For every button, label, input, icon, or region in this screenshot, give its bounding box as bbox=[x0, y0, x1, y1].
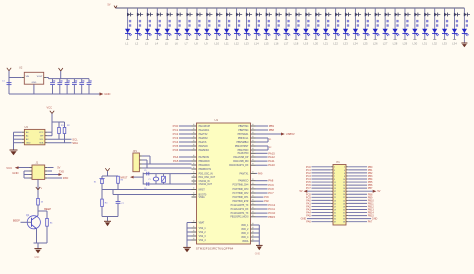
svg-text:P1: P1 bbox=[337, 160, 341, 164]
svg-text:18: 18 bbox=[343, 191, 345, 193]
svg-text:R3: R3 bbox=[121, 180, 124, 182]
svg-text:PA11/USB_DM: PA11/USB_DM bbox=[233, 160, 248, 163]
svg-text:32: 32 bbox=[343, 212, 345, 214]
svg-text:1: 1 bbox=[334, 167, 335, 169]
svg-text:Y1: Y1 bbox=[148, 179, 150, 181]
svg-text:PA5: PA5 bbox=[173, 159, 179, 163]
svg-text:PA3/RX2: PA3/RX2 bbox=[199, 137, 209, 140]
svg-text:GND: GND bbox=[32, 82, 37, 84]
svg-text:16: 16 bbox=[343, 188, 345, 190]
svg-text:31: 31 bbox=[334, 212, 336, 214]
svg-text:PC7: PC7 bbox=[306, 187, 311, 190]
svg-text:L28: L28 bbox=[393, 42, 398, 46]
svg-text:14: 14 bbox=[343, 185, 345, 187]
svg-text:PB3/JTDO: PB3/JTDO bbox=[238, 150, 249, 152]
svg-text:28: 28 bbox=[343, 206, 345, 208]
svg-text:U3: U3 bbox=[25, 125, 29, 129]
svg-text:8: 8 bbox=[344, 176, 345, 178]
svg-text:STM32F103RCT6/LQFP64: STM32F103RCT6/LQFP64 bbox=[196, 246, 234, 250]
svg-text:VSS_2: VSS_2 bbox=[199, 232, 207, 234]
svg-text:BEEP: BEEP bbox=[13, 218, 20, 222]
svg-text:PC6/TIM8_CH1: PC6/TIM8_CH1 bbox=[233, 197, 250, 199]
svg-text:U2: U2 bbox=[19, 66, 23, 70]
svg-text:GND: GND bbox=[372, 218, 378, 221]
svg-text:L19: L19 bbox=[304, 42, 309, 46]
svg-text:L32: L32 bbox=[432, 42, 437, 46]
svg-text:L9: L9 bbox=[204, 42, 208, 46]
svg-text:L21: L21 bbox=[323, 42, 328, 46]
svg-text:24: 24 bbox=[343, 200, 345, 202]
svg-text:12: 12 bbox=[343, 182, 345, 184]
svg-text:PA2/TX2: PA2/TX2 bbox=[199, 133, 209, 136]
svg-text:PC10/UART4_TX: PC10/UART4_TX bbox=[231, 212, 249, 215]
svg-text:4: 4 bbox=[344, 170, 345, 172]
svg-text:L25: L25 bbox=[363, 42, 368, 46]
svg-text:L17: L17 bbox=[284, 42, 289, 46]
svg-text:PD1_OSC_OUT: PD1_OSC_OUT bbox=[199, 177, 216, 179]
svg-text:L5: L5 bbox=[165, 42, 169, 46]
svg-text:L24: L24 bbox=[353, 42, 358, 46]
svg-text:L29: L29 bbox=[403, 42, 408, 46]
svg-text:5V: 5V bbox=[108, 4, 111, 7]
svg-text:PA9: PA9 bbox=[258, 172, 263, 175]
svg-text:PC7: PC7 bbox=[268, 191, 274, 195]
svg-text:R1: R1 bbox=[61, 125, 64, 127]
svg-text:NRST: NRST bbox=[120, 175, 127, 179]
svg-text:PC8/TIM8_CH3: PC8/TIM8_CH3 bbox=[233, 189, 250, 191]
svg-text:VSS_4: VSS_4 bbox=[199, 240, 207, 242]
svg-text:38: 38 bbox=[343, 222, 345, 224]
svg-text:L11: L11 bbox=[224, 42, 229, 46]
svg-text:PB7/SDA1: PB7/SDA1 bbox=[238, 133, 250, 136]
svg-text:L34: L34 bbox=[452, 42, 457, 46]
svg-text:PB8/TIM4: PB8/TIM4 bbox=[238, 130, 249, 132]
svg-text:L13: L13 bbox=[244, 42, 249, 46]
svg-text:GND: GND bbox=[26, 143, 31, 145]
svg-text:PB7: PB7 bbox=[368, 187, 373, 190]
svg-text:19: 19 bbox=[334, 194, 336, 196]
svg-text:C5: C5 bbox=[144, 170, 146, 172]
svg-text:NRST: NRST bbox=[199, 189, 206, 191]
svg-text:GND: GND bbox=[12, 171, 18, 175]
svg-text:PA8/MCO: PA8/MCO bbox=[238, 180, 248, 183]
svg-text:1K: 1K bbox=[41, 202, 44, 204]
svg-text:PC11/UART4_RX: PC11/UART4_RX bbox=[231, 208, 249, 211]
svg-text:VDD_2: VDD_2 bbox=[241, 229, 249, 231]
svg-text:PA4/CS: PA4/CS bbox=[199, 141, 207, 144]
svg-text:GND: GND bbox=[34, 257, 39, 259]
svg-text:OSC32_IN: OSC32_IN bbox=[199, 181, 210, 183]
svg-text:PA0-WKUP: PA0-WKUP bbox=[199, 125, 211, 128]
svg-text:L18: L18 bbox=[294, 42, 299, 46]
svg-text:PA9/TX1: PA9/TX1 bbox=[240, 172, 250, 175]
svg-text:L7: L7 bbox=[185, 42, 189, 46]
svg-text:VCC: VCC bbox=[6, 166, 12, 170]
svg-text:PB8: PB8 bbox=[269, 128, 275, 132]
svg-text:3: 3 bbox=[334, 170, 335, 172]
svg-text:SDA: SDA bbox=[72, 141, 78, 145]
svg-text:2: 2 bbox=[344, 167, 345, 169]
svg-text:PC6: PC6 bbox=[173, 148, 179, 152]
svg-text:34: 34 bbox=[343, 216, 345, 218]
svg-text:V: V bbox=[41, 188, 43, 190]
svg-text:PD0_OSC_IN: PD0_OSC_IN bbox=[199, 174, 213, 176]
svg-text:VSS_1: VSS_1 bbox=[199, 228, 207, 230]
svg-text:L10: L10 bbox=[214, 42, 219, 46]
svg-text:PB5/SMBAI: PB5/SMBAI bbox=[237, 141, 249, 144]
svg-text:23: 23 bbox=[334, 200, 336, 202]
svg-text:L23: L23 bbox=[343, 42, 348, 46]
svg-text:BEEP: BEEP bbox=[44, 207, 51, 211]
svg-text:VBAT: VBAT bbox=[199, 221, 205, 224]
svg-text:L30: L30 bbox=[412, 42, 417, 46]
svg-text:30: 30 bbox=[343, 209, 345, 211]
svg-text:PA1/ADC1: PA1/ADC1 bbox=[199, 129, 210, 132]
svg-text:5: 5 bbox=[334, 173, 335, 175]
svg-text:20: 20 bbox=[343, 194, 345, 196]
svg-text:Q1: Q1 bbox=[26, 214, 30, 217]
svg-text:SDA: SDA bbox=[39, 142, 44, 145]
svg-text:26: 26 bbox=[343, 203, 345, 205]
svg-text:PA5: PA5 bbox=[306, 215, 311, 218]
svg-text:L22: L22 bbox=[333, 42, 338, 46]
svg-text:PB9/TIM4: PB9/TIM4 bbox=[238, 126, 249, 128]
svg-text:TXD: TXD bbox=[59, 170, 64, 174]
svg-text:VDD_1: VDD_1 bbox=[241, 225, 249, 227]
svg-text:21: 21 bbox=[334, 197, 336, 199]
svg-text:USB5V: USB5V bbox=[286, 132, 295, 136]
svg-text:L12: L12 bbox=[234, 42, 239, 46]
svg-text:GND: GND bbox=[104, 92, 110, 96]
svg-text:R4: R4 bbox=[105, 203, 108, 205]
svg-text:PC6: PC6 bbox=[264, 196, 269, 199]
svg-text:PC12/UART5_TX: PC12/UART5_TX bbox=[231, 204, 249, 207]
svg-text:7: 7 bbox=[334, 176, 335, 178]
svg-text:5V: 5V bbox=[377, 190, 380, 193]
svg-text:L20: L20 bbox=[313, 42, 318, 46]
svg-text:C6: C6 bbox=[144, 188, 146, 190]
svg-text:VCC: VCC bbox=[47, 106, 53, 110]
svg-text:PB15: PB15 bbox=[268, 215, 275, 219]
svg-text:PA15/JTDI: PA15/JTDI bbox=[238, 152, 249, 155]
svg-text:L33: L33 bbox=[442, 42, 447, 46]
svg-text:L15: L15 bbox=[264, 42, 269, 46]
svg-text:OSC32_OUT: OSC32_OUT bbox=[199, 184, 213, 186]
svg-text:RXD: RXD bbox=[63, 176, 69, 180]
svg-text:PA10/USART1_RX: PA10/USART1_RX bbox=[229, 164, 249, 167]
svg-text:L1: L1 bbox=[125, 42, 129, 46]
svg-text:VSSA: VSSA bbox=[199, 196, 206, 199]
svg-text:L4: L4 bbox=[155, 42, 159, 46]
svg-text:VIN: VIN bbox=[26, 76, 30, 78]
svg-text:35: 35 bbox=[334, 219, 336, 221]
svg-text:PA7/MOSI: PA7/MOSI bbox=[199, 156, 210, 159]
svg-text:L14: L14 bbox=[254, 42, 259, 46]
svg-text:6: 6 bbox=[344, 173, 345, 175]
svg-text:PC7/TIM8_CH2: PC7/TIM8_CH2 bbox=[233, 193, 250, 195]
svg-text:R2: R2 bbox=[67, 125, 70, 127]
svg-text:VDD_3: VDD_3 bbox=[241, 233, 249, 235]
svg-text:PB0/ADC8: PB0/ADC8 bbox=[199, 160, 211, 163]
svg-text:PA12/USB_DP: PA12/USB_DP bbox=[233, 156, 248, 159]
svg-text:PA10: PA10 bbox=[268, 163, 275, 167]
svg-text:36: 36 bbox=[343, 219, 345, 221]
svg-text:L2: L2 bbox=[135, 42, 139, 46]
svg-text:PC9/TIM8_CH4: PC9/TIM8_CH4 bbox=[233, 185, 250, 187]
svg-text:25: 25 bbox=[334, 203, 336, 205]
svg-text:PB1/ADC9: PB1/ADC9 bbox=[199, 164, 211, 167]
svg-text:11: 11 bbox=[334, 182, 336, 184]
svg-text:X2: X2 bbox=[269, 147, 272, 149]
svg-text:L27: L27 bbox=[383, 42, 388, 46]
svg-text:5V: 5V bbox=[300, 190, 303, 193]
svg-text:B1: B1 bbox=[50, 222, 53, 224]
svg-text:PA6/MISO: PA6/MISO bbox=[199, 149, 210, 152]
svg-text:J1: J1 bbox=[36, 161, 39, 165]
svg-text:29: 29 bbox=[334, 209, 336, 211]
svg-text:PB15/SPI2_MOSI: PB15/SPI2_MOSI bbox=[230, 217, 248, 219]
svg-text:X1: X1 bbox=[269, 139, 272, 141]
svg-text:L8: L8 bbox=[195, 42, 199, 46]
svg-text:L16: L16 bbox=[274, 42, 279, 46]
svg-text:PA5/SCK: PA5/SCK bbox=[199, 145, 209, 148]
svg-text:PB2/BOOT1: PB2/BOOT1 bbox=[199, 169, 212, 171]
svg-text:L6: L6 bbox=[175, 42, 179, 46]
svg-text:C1: C1 bbox=[2, 81, 5, 83]
svg-text:U1: U1 bbox=[215, 118, 219, 122]
svg-text:17: 17 bbox=[334, 191, 336, 193]
svg-text:VDD_4: VDD_4 bbox=[241, 237, 249, 239]
svg-text:VDDA: VDDA bbox=[242, 240, 249, 243]
svg-text:S1: S1 bbox=[94, 181, 97, 183]
svg-text:27: 27 bbox=[334, 206, 336, 208]
svg-text:L31: L31 bbox=[422, 42, 427, 46]
svg-text:33: 33 bbox=[334, 216, 336, 218]
svg-text:C7: C7 bbox=[121, 203, 124, 205]
svg-text:10: 10 bbox=[343, 179, 345, 181]
svg-text:GND: GND bbox=[255, 253, 261, 256]
svg-text:22: 22 bbox=[343, 197, 345, 199]
svg-text:15: 15 bbox=[334, 188, 336, 190]
svg-text:PA6: PA6 bbox=[306, 221, 311, 224]
svg-text:37: 37 bbox=[334, 222, 336, 224]
svg-text:VOUT: VOUT bbox=[37, 76, 44, 78]
svg-text:PB6/SCL1: PB6/SCL1 bbox=[238, 138, 249, 140]
svg-text:JP1: JP1 bbox=[133, 150, 138, 153]
svg-text:VSS_3: VSS_3 bbox=[199, 236, 207, 238]
svg-text:PD2/TIM3_ETR: PD2/TIM3_ETR bbox=[233, 201, 249, 203]
svg-text:5V: 5V bbox=[57, 165, 60, 169]
svg-text:9: 9 bbox=[334, 179, 335, 181]
svg-text:L26: L26 bbox=[373, 42, 378, 46]
svg-text:L3: L3 bbox=[145, 42, 149, 46]
svg-text:PA7: PA7 bbox=[368, 221, 373, 224]
svg-text:VCC: VCC bbox=[39, 132, 44, 134]
svg-text:PB4/JNTRST: PB4/JNTRST bbox=[235, 146, 249, 148]
svg-text:13: 13 bbox=[334, 185, 336, 187]
